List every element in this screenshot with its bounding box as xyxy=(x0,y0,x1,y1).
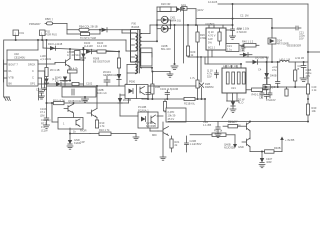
resistor R21E xyxy=(190,129,235,137)
svg-text:R10 1 7k: R10 1 7k xyxy=(99,128,110,132)
svg-text:10k 39: 10k 39 xyxy=(168,114,176,118)
resistor RN2 xyxy=(232,72,235,84)
svg-text:BC1 J: BC1 J xyxy=(208,46,216,50)
label 12-0A xyxy=(208,0,217,4)
svg-text:FB8 [ ]: FB8 [ ] xyxy=(45,17,53,21)
svg-text:F01: F01 xyxy=(20,31,25,35)
optocoupler PC10B label xyxy=(138,105,149,112)
diode D22 xyxy=(181,3,204,12)
resistor R101 xyxy=(117,52,120,76)
wire IC pins top xyxy=(209,25,223,28)
resistor R21B xyxy=(184,97,196,105)
wire xyxy=(120,115,138,117)
svg-text:BK: BK xyxy=(9,82,13,86)
wire xyxy=(162,134,164,157)
capacitor C26 xyxy=(218,28,221,45)
label U21B xyxy=(228,120,242,128)
wire xyxy=(15,36,17,42)
op-amp U20 label xyxy=(205,22,215,26)
wire rail y64 xyxy=(205,57,242,65)
op-amp U02 xyxy=(7,60,38,86)
wire pin xyxy=(38,83,55,85)
svg-text:C4: C4 xyxy=(258,68,262,72)
resistor R26 xyxy=(196,25,206,100)
zener ZD40 xyxy=(258,62,277,85)
svg-text:4.70 V: 4.70 V xyxy=(208,34,216,38)
zener ZD100 xyxy=(81,54,85,59)
ground xyxy=(215,134,221,138)
svg-text:12-0A B: 12-0A B xyxy=(208,0,217,4)
label U10 values xyxy=(41,118,51,133)
wire 12V rail riser xyxy=(156,7,158,41)
svg-text:10k: 10k xyxy=(312,109,317,113)
wire pin xyxy=(4,63,8,65)
transformer aux winding xyxy=(136,55,138,61)
transformer pin ticks xyxy=(132,33,135,57)
transformer T1 primary box xyxy=(131,30,141,63)
svg-text:(L)PD: (L)PD xyxy=(168,110,175,114)
wire xyxy=(60,80,71,82)
transformer shield box xyxy=(141,48,152,66)
svg-text:C10(TA): C10(TA) xyxy=(41,118,51,122)
resistor R11 xyxy=(90,128,136,136)
wire pin xyxy=(38,63,66,65)
svg-text:C101 (1.6)/10M: C101 (1.6)/10M xyxy=(160,87,178,91)
svg-text:52V: 52V xyxy=(207,75,212,79)
wire pin xyxy=(38,70,45,72)
svg-text:LL4148: LL4148 xyxy=(84,44,93,48)
svg-text:C21: C21 xyxy=(227,44,232,48)
capacitor C0B xyxy=(146,86,150,99)
resistor R10 xyxy=(53,99,65,105)
svg-text:C102: C102 xyxy=(86,82,93,86)
capacitor C21C xyxy=(185,136,202,152)
capacitor C100 box xyxy=(75,51,84,61)
diode D40 xyxy=(240,49,252,57)
svg-text:F00: F00 xyxy=(132,22,137,26)
resistor RN3 xyxy=(237,72,240,84)
resistor R40 xyxy=(246,88,268,97)
svg-text:ZD10B: ZD10B xyxy=(123,98,131,102)
svg-text:GND: GND xyxy=(238,145,244,149)
resistor R40B xyxy=(262,146,282,153)
svg-text:TO NTC THM: TO NTC THM xyxy=(80,36,96,40)
svg-text:NC/D32B: NC/D32B xyxy=(224,146,235,150)
svg-text:47u/16V: 47u/16V xyxy=(266,98,276,102)
optocoupler PC00 label xyxy=(129,80,140,87)
svg-text:80L-100: 80L-100 xyxy=(161,47,171,51)
svg-text:1 1k: 1 1k xyxy=(312,88,318,92)
op-amp U21C xyxy=(166,108,186,122)
capacitor C10D xyxy=(38,88,40,100)
capacitor C20 xyxy=(226,25,247,36)
wire vcc feed xyxy=(7,39,39,60)
wire fb2 rail xyxy=(142,98,206,100)
svg-text:PRIMARY: PRIMARY xyxy=(29,22,41,26)
resistor R10B xyxy=(95,118,105,129)
wire xyxy=(150,128,158,137)
wire pin xyxy=(4,77,8,79)
ground xyxy=(160,157,166,160)
svg-text:R7.1: R7.1 xyxy=(41,122,47,126)
capacitor CD3 xyxy=(203,120,220,134)
label xyxy=(190,76,196,80)
fuse F1 xyxy=(45,17,67,25)
wire xyxy=(122,30,136,33)
svg-text:FB4 COL 2B-1B: FB4 COL 2B-1B xyxy=(79,25,98,29)
ground xyxy=(82,97,89,102)
wire xyxy=(204,99,206,122)
diode D24 xyxy=(268,28,289,46)
ground xyxy=(230,109,236,113)
wire xyxy=(120,94,125,96)
capacitor C10C xyxy=(43,71,47,91)
wire xyxy=(195,9,197,25)
ground xyxy=(230,36,236,39)
svg-text:+(1.1)10k: +(1.1)10k xyxy=(40,57,52,61)
diode D20 xyxy=(177,7,181,11)
wire xyxy=(42,40,44,48)
resistor R42B xyxy=(294,62,302,87)
svg-text:1.1./B5: 1.1./B5 xyxy=(203,123,212,127)
svg-text:10V: 10V xyxy=(306,74,311,78)
svg-text:B101B: B101B xyxy=(132,25,140,29)
zener ZD102 xyxy=(44,77,57,83)
wire right rail xyxy=(307,4,309,122)
wire pin xyxy=(38,78,42,88)
wire xyxy=(51,102,58,122)
label xyxy=(237,14,250,31)
inductor L40 xyxy=(246,58,308,64)
svg-text:U02: U02 xyxy=(14,52,19,56)
svg-text:1.1uF/50V: 1.1uF/50V xyxy=(190,142,202,146)
svg-text:FOR FUS: FOR FUS xyxy=(46,33,58,37)
zener ZD41 xyxy=(260,152,273,165)
svg-text:R40B: R40B xyxy=(274,146,281,150)
wire jack pins xyxy=(227,93,239,101)
capacitor C23 xyxy=(241,44,245,51)
capacitor C28 xyxy=(207,69,219,79)
wire top right rail xyxy=(218,3,308,5)
capacitor C45 xyxy=(259,95,269,100)
diode D100 xyxy=(84,41,97,54)
wire xyxy=(183,10,185,63)
resistor R21D xyxy=(170,136,180,152)
svg-text:C2. 1M: C2. 1M xyxy=(240,14,248,18)
svg-text:MD/: MD/ xyxy=(152,133,157,137)
connector J1 xyxy=(13,30,25,36)
svg-text:10V: 10V xyxy=(299,37,304,41)
optocoupler PC00 xyxy=(125,85,148,99)
svg-text:BE GESTOUR: BE GESTOUR xyxy=(93,60,110,64)
svg-text:D/U DW 4M: D/U DW 4M xyxy=(255,56,269,60)
wire 3V arrow xyxy=(280,137,295,152)
svg-text:DRCK: DRCK xyxy=(28,63,36,67)
svg-text:1.1u: 1.1u xyxy=(227,48,233,52)
label D20 xyxy=(161,2,170,6)
svg-text:(.0P: (.0P xyxy=(80,140,85,144)
resistor R29 xyxy=(186,25,195,57)
wire xyxy=(41,36,43,42)
svg-text:BOUT 7: BOUT 7 xyxy=(9,63,19,67)
resistor R104 xyxy=(40,40,60,86)
connector U21 xyxy=(222,64,246,93)
capacitor C102 xyxy=(86,76,110,86)
transistor Q40 xyxy=(224,138,250,152)
zener D26 xyxy=(231,98,245,110)
svg-text:GP1: GP1 xyxy=(30,82,36,86)
wire xyxy=(250,151,263,153)
wire fb rail xyxy=(46,86,129,118)
label PRIMARY xyxy=(29,22,41,26)
wire sec pin1 xyxy=(142,25,151,34)
svg-text:D40B: D40B xyxy=(270,74,277,78)
resistor RN1 xyxy=(226,72,229,84)
resistor R41B xyxy=(223,120,247,128)
label xyxy=(80,129,87,145)
svg-text:470k: 470k xyxy=(200,36,206,40)
junction xyxy=(46,39,48,41)
wire pin xyxy=(4,70,8,72)
ground xyxy=(39,96,45,99)
optocoupler PC10B xyxy=(138,112,158,128)
wire xyxy=(82,49,84,87)
ground xyxy=(167,72,173,78)
op-amp U02 label xyxy=(14,52,25,60)
wire rail y19 xyxy=(197,19,274,29)
wire 5V branch xyxy=(266,57,268,87)
wire sec pin5 xyxy=(151,68,170,84)
svg-text:(1M: (1M xyxy=(40,113,44,117)
svg-text:(MR4.01): (MR4.01) xyxy=(170,19,181,23)
transistor Q100 xyxy=(66,48,81,81)
ground xyxy=(67,146,73,149)
op-amp U40 TL431 xyxy=(263,85,276,95)
op-amp U10 KIA431 xyxy=(58,118,83,130)
op-amp U20 xyxy=(206,28,226,50)
wire 12V exit xyxy=(286,44,320,61)
wire bottom rail xyxy=(168,121,309,123)
svg-text:U20B00: U20B00 xyxy=(205,22,215,26)
capacitor C41 xyxy=(272,61,280,87)
thermistor L00B xyxy=(67,32,100,40)
svg-text:D10 LL4148: D10 LL4148 xyxy=(48,42,63,46)
diode D23 xyxy=(157,25,171,32)
diode D104 xyxy=(55,82,72,86)
wire gnd column xyxy=(161,25,176,65)
label Q21 xyxy=(146,121,156,128)
transformer secondary winding lower xyxy=(140,55,142,68)
wire xyxy=(125,84,127,86)
svg-text:1 7L: 1 7L xyxy=(190,76,196,80)
wire sec pin2 xyxy=(142,40,159,42)
node xyxy=(99,29,101,34)
svg-text:C: C xyxy=(32,69,34,73)
svg-text:1.7k: 1.7k xyxy=(100,124,106,128)
svg-text:(110V: (110V xyxy=(197,8,204,12)
resistor R43 xyxy=(285,87,288,96)
svg-text:ZD 4.1B: ZD 4.1B xyxy=(50,68,60,72)
wire xyxy=(226,64,241,68)
svg-text:Q 10: Q 10 xyxy=(208,30,214,34)
transistor Q41 xyxy=(247,121,252,140)
ground xyxy=(259,165,265,168)
wire IC pins bottom xyxy=(208,50,212,64)
svg-text:45 1V: 45 1V xyxy=(168,117,175,121)
svg-text:GESBRUAR: GESBRUAR xyxy=(103,73,118,77)
svg-text:U21: U21 xyxy=(231,86,236,90)
svg-text:R40 1W: R40 1W xyxy=(228,120,238,124)
svg-text:R21B K/L: R21B K/L xyxy=(184,102,196,106)
svg-text:Q10B KC/MORM: Q10B KC/MORM xyxy=(68,99,88,103)
wire AC bus xyxy=(4,39,126,41)
ground xyxy=(44,125,50,129)
transistor Q10B xyxy=(64,99,88,118)
svg-text:12-1 OR: 12-1 OR xyxy=(97,44,107,48)
svg-text:1/W: 1/W xyxy=(208,37,213,41)
label U21 xyxy=(231,86,236,90)
svg-text:110n 1/n: 110n 1/n xyxy=(97,91,107,95)
resistor R45 xyxy=(306,104,316,115)
resistor R100 xyxy=(97,41,119,53)
wire sec pin4 xyxy=(142,67,154,69)
capacitor C42 xyxy=(301,61,312,78)
svg-text:VTB: VTB xyxy=(9,76,14,80)
capacitor C10A xyxy=(40,107,49,125)
zener ZD100 xyxy=(93,57,110,64)
wire sec pin3 xyxy=(142,53,153,57)
svg-text:-SESSEGER: -SESSEGER xyxy=(286,44,301,48)
svg-text:L2C L1C L0: L2C L1C L0 xyxy=(223,64,237,68)
transformer aux winding 2 xyxy=(127,64,137,86)
connector J2 xyxy=(40,30,58,37)
ferrite bead FB4 xyxy=(67,25,100,32)
svg-text:(C1W: (C1W xyxy=(41,129,48,133)
resistor R0B xyxy=(151,84,161,100)
resistor R103 xyxy=(68,67,79,74)
wire rail y57 xyxy=(188,56,267,82)
capacitor C10B xyxy=(36,88,44,97)
zener ZD11 xyxy=(68,138,82,145)
ground xyxy=(4,97,11,101)
svg-text:C10B: C10B xyxy=(36,88,43,92)
wire xyxy=(156,20,158,29)
wire xyxy=(126,40,136,51)
switch lever xyxy=(222,108,228,118)
wire left rail xyxy=(3,40,5,97)
transistor Q21 xyxy=(158,122,169,136)
wire bottom out rail xyxy=(263,86,308,88)
resistor R41 xyxy=(240,40,259,48)
transformer primary winding xyxy=(136,33,138,51)
svg-text:4L D: 4L D xyxy=(238,101,244,105)
resistor R106 xyxy=(72,82,83,85)
svg-text:MC/D3B: MC/D3B xyxy=(146,124,156,128)
svg-text:4.7k/100: 4.7k/100 xyxy=(237,30,248,34)
svg-text:DWDM: DWDM xyxy=(205,85,213,89)
svg-text:RL: RL xyxy=(9,69,13,73)
zener ZD10B xyxy=(118,94,132,116)
svg-text:R40 1.1: R40 1.1 xyxy=(252,93,262,97)
transistor Q10C xyxy=(87,85,98,118)
diode D21 xyxy=(157,16,181,26)
resistor R20 loop xyxy=(157,7,177,12)
ground xyxy=(171,66,178,70)
ground xyxy=(300,78,307,82)
svg-text:B: B xyxy=(298,67,300,71)
wire xyxy=(157,115,163,117)
svg-text:4.7 4C/10x: 4.7 4C/10x xyxy=(67,53,80,57)
wire left rail2 xyxy=(3,60,5,82)
resistor R44 xyxy=(306,84,317,100)
wire kia bottom xyxy=(69,128,90,140)
diode D2B xyxy=(199,82,213,100)
diode D1 xyxy=(100,28,131,32)
capacitor C21B xyxy=(272,26,305,41)
wire bottom primary xyxy=(47,85,127,87)
diode D10 xyxy=(43,42,119,52)
zener ZD103 xyxy=(55,76,67,87)
svg-text:DK0: DK0 xyxy=(240,49,246,53)
junction xyxy=(82,47,120,53)
svg-text:A-W 1B: A-W 1B xyxy=(295,56,304,60)
transformer secondary winding upper xyxy=(140,34,142,53)
wire xyxy=(271,44,273,63)
svg-text:CE1040U: CE1040U xyxy=(14,56,25,60)
wire gnd arrow xyxy=(233,135,244,149)
resistor R21C xyxy=(163,99,166,112)
resistor RN4 xyxy=(242,72,245,84)
wire opto line xyxy=(148,85,196,87)
capacitor C101 xyxy=(160,87,178,99)
ground xyxy=(133,134,139,141)
wire mid rail xyxy=(150,24,234,26)
svg-text:1.0: 1.0 xyxy=(55,79,59,83)
transformer core xyxy=(138,30,140,74)
svg-text:R/OR: R/OR xyxy=(80,129,87,133)
capacitor C22 box xyxy=(226,44,239,52)
wire xyxy=(232,4,234,25)
transformer T1 label xyxy=(132,22,140,30)
diode D41 xyxy=(253,56,269,65)
zener ZD101 xyxy=(103,70,121,86)
svg-text:C: C xyxy=(32,76,34,80)
wire xyxy=(66,24,68,35)
svg-text:D20 OR: D20 OR xyxy=(161,2,170,6)
svg-text:+ 3V-B5: + 3V-B5 xyxy=(285,138,295,142)
svg-text:R40 1 1.2: R40 1 1.2 xyxy=(242,40,254,44)
svg-text:47u: 47u xyxy=(272,68,277,72)
capacitor C40B xyxy=(266,90,276,103)
capacitor C40 xyxy=(256,89,264,98)
svg-text:/10R: /10R xyxy=(266,160,272,164)
snubber box xyxy=(62,87,107,98)
